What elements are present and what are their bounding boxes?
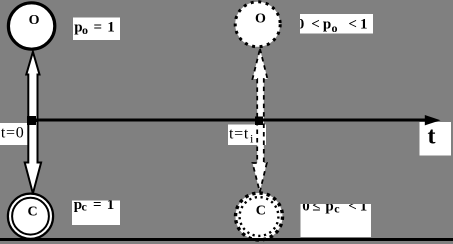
dashed down arrow at t=t_i	[253, 121, 267, 192]
state circle O at t=0	[8, 3, 54, 49]
state double circle C at t=0	[8, 194, 53, 239]
label box t (axis label)	[420, 122, 452, 156]
label box t=t_i	[228, 125, 266, 146]
node t=t_i (junction square)	[255, 117, 263, 126]
svg-text:C: C	[28, 205, 38, 220]
label box p_c = 1	[72, 197, 120, 225]
label box 0 &lt; p_o &lt; 1	[297, 14, 373, 35]
bottom border line	[0, 238, 453, 241]
svg-text:t: t	[428, 124, 436, 150]
time axis	[32, 119, 427, 122]
svg-text:t=0: t=0	[1, 125, 25, 142]
dotted state circle O at t=t_i	[235, 2, 280, 47]
label box p_o = 1	[73, 18, 120, 41]
svg-text:C: C	[256, 204, 266, 219]
label box t=0	[0, 123, 36, 145]
time axis arrowhead	[425, 115, 441, 125]
up arrow at t=0 (state O entry)	[26, 52, 39, 120]
dotted double state circle C at t=t_i	[236, 193, 283, 240]
down arrow at t=0 (state C entry)	[25, 121, 41, 194]
dashed up arrow at t=t_i	[253, 49, 268, 120]
svg-text:O: O	[255, 12, 266, 27]
label box 0 &#8804; p_c &lt; 1	[301, 199, 372, 238]
svg-text:O: O	[29, 13, 40, 28]
node t=0 (junction square)	[27, 116, 36, 125]
svg-text:po=1: po=1	[74, 20, 115, 38]
